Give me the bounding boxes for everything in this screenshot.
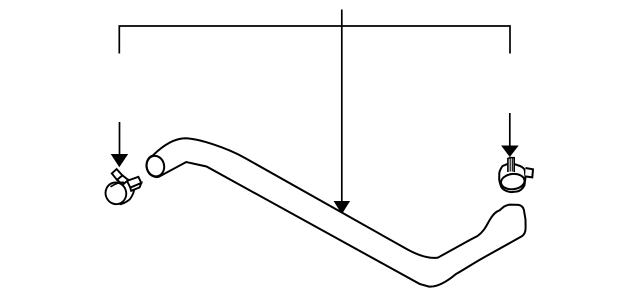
clamp B front opening: [500, 173, 525, 191]
left arrowhead: [111, 154, 129, 167]
clamp B screw slot: [508, 158, 514, 173]
clamp A right tab: [127, 177, 141, 188]
clamp B body: [499, 164, 525, 192]
center leader wire: [341, 10, 343, 203]
hose open end rim: [145, 154, 166, 178]
right leader wire: [509, 113, 511, 147]
clamp B right tab: [525, 168, 533, 177]
clamp B (right): [499, 158, 533, 193]
clamp A screw housing: [117, 175, 128, 184]
right arrowhead: [501, 146, 519, 158]
center arrowhead: [334, 201, 351, 214]
clamp B screw slot inner lines: [509, 158, 511, 172]
clamp A (left): [103, 169, 142, 207]
left leader wire: [119, 122, 121, 155]
clamp A front ring: [103, 180, 129, 207]
clamp A band inner rim line: [111, 182, 125, 187]
clamp A screw head: [112, 169, 123, 180]
hose body: [146, 138, 525, 286]
clamp A right tab side: [130, 183, 141, 191]
clamp A band: [111, 179, 135, 204]
bracket (callout): [119, 26, 510, 54]
